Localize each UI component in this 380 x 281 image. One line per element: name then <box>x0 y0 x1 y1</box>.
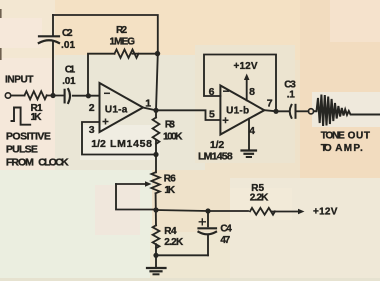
svg-text:FROM: FROM <box>6 157 34 169</box>
svg-text:2.2K: 2.2K <box>164 237 184 248</box>
svg-text:.01: .01 <box>61 40 75 51</box>
svg-text:5: 5 <box>209 109 215 121</box>
svg-text:PULSE: PULSE <box>6 144 38 156</box>
svg-text:.01: .01 <box>62 76 76 87</box>
svg-text:R3: R3 <box>165 120 175 131</box>
svg-text:1: 1 <box>145 98 151 110</box>
svg-text:LM1458: LM1458 <box>198 151 233 163</box>
svg-text:100K: 100K <box>163 132 183 143</box>
svg-text:C4: C4 <box>220 224 232 235</box>
svg-text:1K: 1K <box>164 185 175 196</box>
svg-text:2.2K: 2.2K <box>250 192 269 203</box>
svg-text:7: 7 <box>267 98 273 110</box>
svg-text:+12V: +12V <box>234 61 258 72</box>
svg-text:1K: 1K <box>31 112 43 123</box>
svg-text:47: 47 <box>220 235 230 246</box>
svg-text:POSITIVE: POSITIVE <box>6 131 51 143</box>
svg-text:INPUT: INPUT <box>5 75 34 86</box>
svg-text:TO: TO <box>321 143 332 154</box>
svg-text:1/2: 1/2 <box>210 139 224 151</box>
svg-text:C2: C2 <box>62 28 73 39</box>
svg-text:R2: R2 <box>116 25 127 36</box>
svg-text:1/2: 1/2 <box>91 138 106 150</box>
svg-text:+12V: +12V <box>313 207 338 218</box>
svg-text:OUT: OUT <box>348 131 370 142</box>
svg-text:1MEG: 1MEG <box>110 37 136 48</box>
svg-text:LM1458: LM1458 <box>110 138 152 150</box>
svg-text:.1: .1 <box>287 90 295 101</box>
svg-text:6: 6 <box>209 86 215 98</box>
svg-text:CLOCK: CLOCK <box>38 157 69 169</box>
svg-text:3: 3 <box>89 124 95 136</box>
svg-text:C1: C1 <box>65 65 76 76</box>
svg-text:R6: R6 <box>164 174 176 185</box>
svg-text:U1-b: U1-b <box>226 106 249 117</box>
svg-text:U1-a: U1-a <box>105 105 128 116</box>
svg-text:2: 2 <box>89 102 95 114</box>
svg-text:4: 4 <box>249 125 255 137</box>
svg-text:8: 8 <box>249 86 255 98</box>
svg-text:TONE: TONE <box>321 131 345 142</box>
svg-text:R4: R4 <box>164 226 177 237</box>
